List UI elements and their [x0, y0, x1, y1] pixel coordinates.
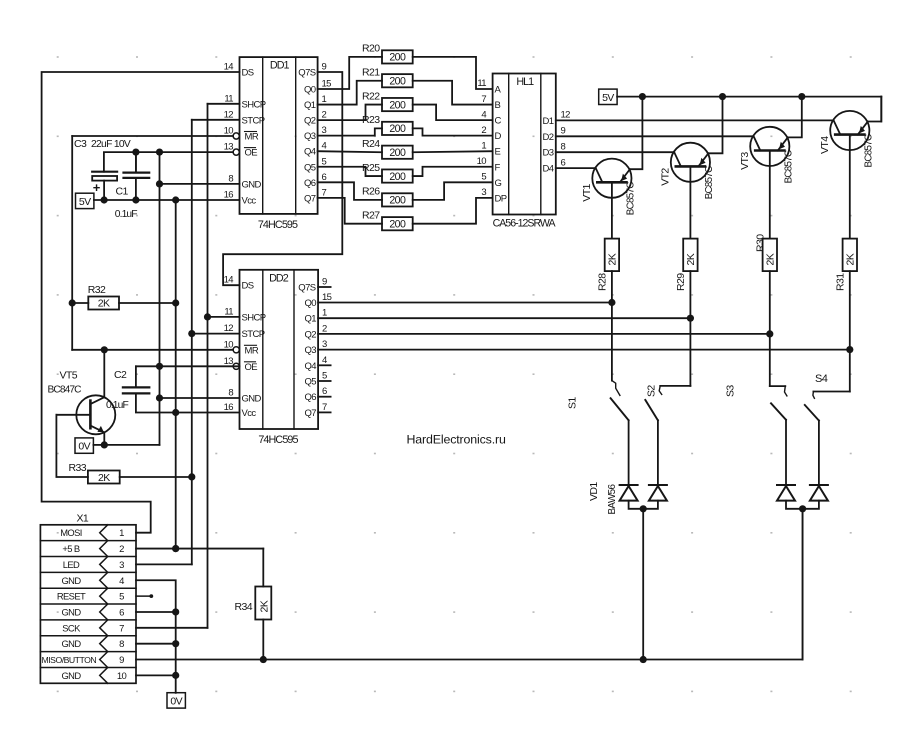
svg-text:5: 5 — [322, 371, 327, 382]
svg-text:R26: R26 — [362, 186, 380, 198]
svg-text:2K: 2K — [607, 253, 619, 265]
svg-text:OE: OE — [245, 362, 258, 373]
svg-text:3: 3 — [322, 339, 327, 350]
svg-text:VT5: VT5 — [60, 370, 78, 382]
svg-text:C2: C2 — [114, 369, 127, 381]
svg-text:SHCP: SHCP — [242, 312, 266, 323]
svg-text:RESET: RESET — [57, 591, 86, 602]
svg-text:Q7S: Q7S — [298, 283, 315, 294]
svg-text:S4: S4 — [815, 373, 828, 385]
svg-text:MR: MR — [245, 132, 259, 143]
svg-text:R29: R29 — [675, 273, 687, 291]
svg-text:12: 12 — [561, 110, 571, 121]
svg-text:MR: MR — [245, 345, 259, 356]
svg-text:Q2: Q2 — [305, 329, 317, 340]
svg-text:VT1: VT1 — [581, 183, 593, 201]
svg-text:MISO/BUTTON: MISO/BUTTON — [42, 655, 97, 665]
svg-text:22uF 10V: 22uF 10V — [91, 139, 131, 150]
svg-text:200: 200 — [389, 76, 406, 88]
svg-text:9: 9 — [119, 655, 124, 666]
svg-text:15: 15 — [322, 292, 332, 303]
svg-text:200: 200 — [389, 99, 406, 111]
svg-text:R31: R31 — [834, 273, 846, 291]
svg-text:3: 3 — [481, 187, 486, 198]
svg-text:Q6: Q6 — [304, 178, 316, 189]
svg-text:14: 14 — [224, 62, 234, 73]
svg-text:Q5: Q5 — [304, 162, 316, 173]
svg-text:2K: 2K — [685, 253, 697, 265]
svg-text:2K: 2K — [845, 253, 857, 265]
svg-text:200: 200 — [389, 195, 406, 207]
svg-text:2K: 2K — [765, 253, 777, 265]
svg-text:13: 13 — [224, 142, 234, 153]
svg-text:Vcc: Vcc — [242, 408, 257, 419]
svg-text:4: 4 — [119, 576, 124, 587]
svg-text:D3: D3 — [543, 148, 554, 159]
svg-text:Q2: Q2 — [304, 116, 316, 127]
svg-text:S2: S2 — [646, 385, 658, 397]
svg-text:8: 8 — [228, 173, 233, 184]
svg-text:2K: 2K — [259, 600, 271, 612]
svg-text:200: 200 — [389, 219, 406, 231]
svg-text:Q3: Q3 — [305, 345, 317, 356]
svg-text:R27: R27 — [362, 210, 380, 222]
svg-text:200: 200 — [389, 147, 406, 159]
svg-text:GND: GND — [61, 638, 81, 649]
svg-text:14: 14 — [224, 275, 234, 286]
svg-text:Q3: Q3 — [304, 131, 316, 142]
svg-text:VT3: VT3 — [739, 152, 751, 170]
svg-text:10: 10 — [477, 156, 487, 167]
svg-text:D1: D1 — [543, 116, 554, 127]
svg-text:A: A — [495, 85, 502, 96]
svg-text:HardElectronics.ru: HardElectronics.ru — [407, 433, 506, 447]
svg-text:3: 3 — [322, 125, 327, 136]
svg-text:2: 2 — [119, 544, 124, 555]
svg-text:D2: D2 — [543, 132, 554, 143]
svg-text:10: 10 — [224, 126, 234, 137]
svg-text:GND: GND — [61, 606, 81, 617]
svg-text:VD1: VD1 — [588, 482, 600, 501]
svg-text:6: 6 — [322, 386, 327, 397]
svg-text:7: 7 — [119, 623, 124, 634]
svg-text:LED: LED — [63, 559, 80, 570]
svg-text:GND: GND — [61, 670, 81, 681]
svg-text:74HC595: 74HC595 — [258, 219, 298, 231]
svg-text:2K: 2K — [98, 472, 110, 484]
svg-text:C3: C3 — [74, 138, 87, 150]
svg-text:9: 9 — [561, 126, 566, 137]
svg-text:1: 1 — [481, 140, 486, 151]
svg-text:D: D — [495, 131, 502, 142]
svg-text:X1: X1 — [77, 513, 89, 525]
svg-text:6: 6 — [561, 157, 566, 168]
svg-text:5: 5 — [119, 592, 124, 603]
svg-text:Q1: Q1 — [304, 100, 316, 111]
svg-text:SCK: SCK — [62, 622, 81, 633]
svg-text:10: 10 — [117, 671, 127, 682]
svg-text:GND: GND — [242, 394, 262, 405]
svg-text:2K: 2K — [98, 298, 110, 310]
svg-text:4: 4 — [322, 355, 327, 366]
svg-text:BC857C: BC857C — [704, 166, 715, 199]
svg-text:Q4: Q4 — [304, 147, 316, 158]
svg-text:0V: 0V — [78, 441, 90, 453]
svg-text:2: 2 — [322, 110, 327, 121]
svg-text:10: 10 — [224, 339, 234, 350]
svg-text:+: + — [93, 180, 101, 195]
svg-text:5V: 5V — [602, 92, 614, 104]
svg-text:BAW56: BAW56 — [607, 483, 618, 514]
svg-text:8: 8 — [228, 388, 233, 399]
svg-text:GND: GND — [242, 179, 262, 190]
svg-text:R32: R32 — [88, 284, 106, 296]
svg-text:Q6: Q6 — [305, 392, 317, 403]
svg-text:16: 16 — [224, 402, 234, 413]
svg-text:15: 15 — [322, 79, 332, 90]
svg-text:R30: R30 — [754, 234, 766, 252]
svg-text:9: 9 — [322, 277, 327, 288]
svg-text:6: 6 — [322, 172, 327, 183]
svg-text:F: F — [495, 162, 501, 173]
svg-text:0V: 0V — [170, 695, 182, 707]
svg-text:CA56-12SRWA: CA56-12SRWA — [493, 218, 557, 230]
svg-text:Vcc: Vcc — [242, 196, 257, 207]
svg-text:7: 7 — [322, 187, 327, 198]
svg-text:R33: R33 — [69, 462, 87, 474]
svg-text:VT2: VT2 — [659, 168, 671, 186]
svg-text:11: 11 — [224, 306, 233, 317]
svg-text:BC857C: BC857C — [783, 150, 794, 183]
svg-text:200: 200 — [389, 52, 406, 64]
svg-text:Q7: Q7 — [305, 408, 317, 419]
svg-text:+5 B: +5 B — [62, 543, 79, 554]
svg-text:6: 6 — [119, 607, 124, 618]
svg-text:4: 4 — [322, 141, 327, 152]
svg-text:S3: S3 — [725, 385, 737, 397]
svg-text:Q5: Q5 — [305, 377, 317, 388]
svg-text:B: B — [495, 100, 501, 111]
svg-text:Q1: Q1 — [305, 314, 317, 325]
svg-text:GND: GND — [61, 575, 81, 586]
svg-text:DS: DS — [242, 281, 254, 292]
svg-text:Q0: Q0 — [305, 298, 317, 309]
svg-text:MOSI: MOSI — [60, 527, 82, 538]
svg-text:8: 8 — [119, 639, 124, 650]
svg-text:Q0: Q0 — [304, 85, 316, 96]
svg-text:2: 2 — [481, 125, 486, 136]
svg-text:9: 9 — [322, 62, 327, 73]
svg-text:VT4: VT4 — [819, 136, 831, 154]
svg-text:D4: D4 — [543, 164, 554, 175]
svg-text:12: 12 — [224, 323, 234, 334]
svg-text:12: 12 — [224, 109, 234, 120]
svg-text:DD1: DD1 — [270, 60, 290, 72]
svg-text:3: 3 — [119, 560, 124, 571]
svg-text:7: 7 — [322, 402, 327, 413]
svg-text:4: 4 — [481, 109, 486, 120]
svg-text:R21: R21 — [362, 67, 380, 79]
svg-text:STCP: STCP — [242, 329, 265, 340]
svg-text:1: 1 — [119, 528, 124, 539]
svg-text:G: G — [495, 178, 502, 189]
svg-text:7: 7 — [481, 94, 486, 105]
svg-text:R24: R24 — [362, 138, 380, 150]
svg-text:DP: DP — [495, 193, 507, 204]
svg-text:13: 13 — [224, 356, 234, 367]
svg-text:BC847C: BC847C — [48, 385, 82, 396]
svg-text:8: 8 — [561, 141, 566, 152]
svg-text:200: 200 — [389, 171, 406, 183]
svg-text:R20: R20 — [362, 43, 380, 55]
svg-text:16: 16 — [224, 190, 234, 201]
svg-text:C: C — [495, 116, 502, 127]
svg-text:R22: R22 — [362, 90, 380, 102]
svg-text:Q7: Q7 — [304, 193, 316, 204]
svg-text:Q7S: Q7S — [298, 68, 315, 79]
svg-text:74HC595: 74HC595 — [258, 434, 298, 446]
svg-text:5V: 5V — [79, 196, 91, 208]
svg-text:1: 1 — [322, 308, 327, 319]
svg-text:STCP: STCP — [242, 115, 265, 126]
svg-text:SHCP: SHCP — [242, 99, 266, 110]
svg-text:0.1uF: 0.1uF — [115, 209, 137, 220]
svg-text:DS: DS — [242, 68, 254, 79]
svg-text:200: 200 — [389, 123, 406, 135]
svg-text:2: 2 — [322, 323, 327, 334]
svg-text:E: E — [495, 147, 501, 158]
svg-text:11: 11 — [224, 93, 233, 104]
svg-text:C1: C1 — [116, 186, 129, 198]
svg-text:BC857C: BC857C — [863, 134, 874, 167]
svg-text:R34: R34 — [235, 601, 253, 613]
svg-text:5: 5 — [322, 156, 327, 167]
svg-text:S1: S1 — [567, 397, 579, 409]
svg-text:DD2: DD2 — [269, 272, 289, 284]
svg-text:5: 5 — [481, 172, 486, 183]
svg-text:BC857C: BC857C — [625, 182, 636, 215]
svg-text:1: 1 — [322, 94, 327, 105]
svg-text:11: 11 — [477, 78, 486, 89]
svg-text:Q4: Q4 — [305, 361, 317, 372]
svg-text:OE: OE — [245, 148, 258, 159]
svg-text:R28: R28 — [596, 273, 608, 291]
svg-text:HL1: HL1 — [516, 76, 534, 88]
